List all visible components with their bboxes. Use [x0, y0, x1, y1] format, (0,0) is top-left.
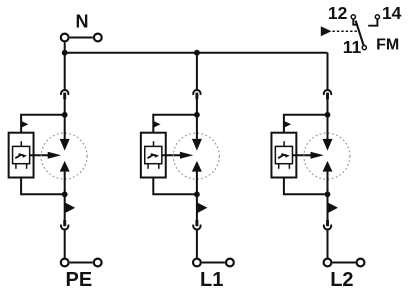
- wire: plug to node: [327, 97, 329, 116]
- label FM: [376, 36, 399, 53]
- label N: [76, 12, 89, 32]
- status indicator F3 outer box: [271, 133, 296, 178]
- plug-in contact (top, L2 path): [324, 90, 331, 99]
- spark gap F1 (lower electrode): [60, 161, 70, 172]
- contact 14 circle: [375, 15, 379, 19]
- wire: node to disconnect flag: [327, 194, 329, 220]
- wire: branch to status indicator: [153, 115, 197, 133]
- wire: node to disconnect flag: [196, 194, 198, 220]
- wire: node to spark gap: [196, 115, 198, 140]
- indicator element (inner box with flash): [13, 146, 30, 163]
- svg-text:PE: PE: [66, 269, 93, 291]
- wire: plug to node: [64, 97, 66, 116]
- wire: bus drop to L2 plug-in contact: [327, 53, 329, 90]
- electrode leads (bottom ticks): [148, 164, 159, 169]
- wire: node to disconnect flag: [64, 194, 66, 220]
- terminal L1 (right circle): [226, 259, 234, 267]
- wire: node to spark gap: [327, 115, 329, 140]
- wire: N terminal link: [70, 37, 93, 39]
- contact 12 circle: [351, 15, 355, 19]
- node: N bus / L1 branch: [194, 50, 200, 56]
- label 12: [328, 3, 348, 23]
- thermal disconnect flag (upper, PE): [21, 121, 28, 128]
- wire: spark gap to bottom node: [196, 171, 198, 195]
- wire: branch to status indicator: [21, 115, 65, 133]
- label PE: [66, 269, 93, 291]
- svg-text:14: 14: [382, 3, 402, 23]
- wire: plug to terminal: [64, 230, 66, 258]
- wire: node to spark gap: [64, 115, 66, 140]
- contact 14 seat: [368, 19, 377, 25]
- svg-text:FM: FM: [376, 36, 399, 53]
- dashed circle (arrester module outline): [304, 133, 350, 179]
- label 14: [382, 3, 402, 23]
- plug-in contact (top, PE path): [61, 90, 68, 99]
- remote indication arrow (FM actuator): [321, 26, 332, 36]
- wire: branch to status indicator: [284, 115, 328, 133]
- status indicator F1 outer box: [9, 133, 34, 178]
- monitoring arrow (indicator to spark gap): [30, 152, 61, 159]
- dashed circle (arrester module outline): [173, 133, 219, 179]
- spark gap F3 (upper electrode): [323, 139, 333, 151]
- node: top junction PE branch: [62, 112, 68, 118]
- svg-text:L2: L2: [330, 269, 353, 291]
- thermal disconnect flag (lower, PE): [65, 202, 76, 213]
- node: N bus / PE branch: [62, 50, 68, 56]
- label 11: [343, 37, 362, 57]
- thermal disconnect flag (upper, L1): [153, 121, 160, 128]
- wire: bus drop to L1 plug-in contact: [196, 53, 198, 90]
- contact 11 circle: [362, 46, 366, 50]
- svg-text:12: 12: [328, 3, 348, 23]
- electrode lead (top tick): [283, 141, 285, 146]
- plug-in contact (bottom, PE path): [61, 220, 68, 230]
- terminal N (left circle): [61, 34, 69, 42]
- svg-text:L1: L1: [200, 269, 223, 291]
- wire: N bus: [65, 52, 328, 54]
- thermal disconnect flag (lower, L2): [328, 202, 339, 213]
- plug-in contact (bottom, L2 path): [324, 220, 331, 230]
- flash symbol (sparkover arrow): [278, 154, 290, 158]
- plug-in contact (top, L1 path): [193, 90, 200, 99]
- thermal disconnect flag (lower, L1): [197, 202, 208, 213]
- wire: plug to terminal: [196, 230, 198, 258]
- spark gap F1 (upper electrode): [60, 139, 70, 151]
- wire: N terminal to bus: [64, 42, 66, 52]
- plug-in contact (bottom, L1 path): [193, 220, 200, 230]
- wire: terminal link: [70, 262, 93, 264]
- spark gap F2 (upper electrode): [192, 139, 202, 151]
- wire: plug to terminal: [327, 230, 329, 258]
- wire: indicator return to bottom node: [21, 177, 65, 194]
- node: bottom junction L1 branch: [194, 191, 200, 197]
- terminal N (right circle): [94, 34, 102, 42]
- dashed circle (arrester module outline): [41, 133, 87, 179]
- terminal L2 (right circle): [357, 259, 365, 267]
- label L2: [330, 269, 353, 291]
- flash symbol (sparkover arrow): [15, 154, 27, 158]
- indicator element (inner box with flash): [275, 146, 292, 163]
- flash symbol (sparkover arrow): [148, 154, 160, 158]
- contact 12 seat: [353, 19, 358, 24]
- node: top junction L2 branch: [325, 112, 331, 118]
- svg-text:N: N: [76, 12, 89, 32]
- terminal PE (left circle): [61, 259, 69, 267]
- wire: terminal link: [202, 262, 225, 264]
- wire: spark gap to bottom node: [64, 171, 66, 195]
- wire: bus drop to PE plug-in contact: [64, 53, 66, 90]
- electrode leads (bottom ticks): [16, 164, 27, 169]
- electrode leads (bottom ticks): [279, 164, 290, 169]
- status indicator F2 outer box: [141, 133, 166, 178]
- wire: terminal link: [333, 262, 356, 264]
- thermal disconnect flag (upper, L2): [284, 121, 291, 128]
- monitoring arrow (indicator to spark gap): [293, 152, 324, 159]
- wire: spark gap to bottom node: [327, 171, 329, 195]
- svg-text:11: 11: [343, 37, 362, 57]
- wire: plug to node: [196, 97, 198, 116]
- electrode lead (top tick): [20, 141, 22, 146]
- changeover lever (11 common): [356, 21, 364, 46]
- node: bottom junction L2 branch: [325, 191, 331, 197]
- node: bottom junction PE branch: [62, 191, 68, 197]
- terminal L2 (left circle): [324, 259, 332, 267]
- label L1: [200, 269, 223, 291]
- monitoring arrow (indicator to spark gap): [162, 152, 193, 159]
- indicator element (inner box with flash): [145, 146, 162, 163]
- wire: indicator return to bottom node: [284, 177, 328, 194]
- electrode lead (top tick): [153, 141, 155, 146]
- terminal L1 (left circle): [193, 259, 201, 267]
- terminal PE (right circle): [94, 259, 102, 267]
- spark gap F3 (lower electrode): [323, 161, 333, 172]
- dashed actuator link: [333, 30, 358, 32]
- node: top junction L1 branch: [194, 112, 200, 118]
- spark gap F2 (lower electrode): [192, 161, 202, 172]
- wire: indicator return to bottom node: [153, 177, 197, 194]
